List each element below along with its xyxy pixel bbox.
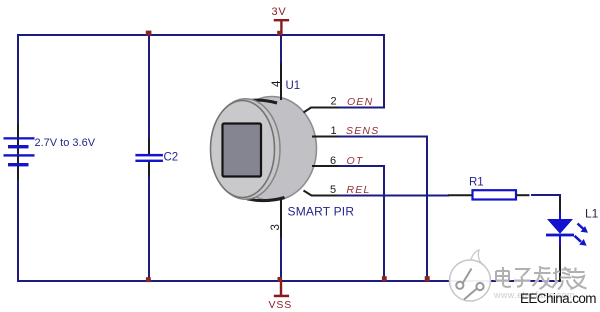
power symbol 3V	[272, 6, 290, 34]
svg-text:L1: L1	[585, 207, 599, 221]
wire: C2 top branch	[148, 35, 150, 139]
svg-text:VSS: VSS	[269, 299, 293, 311]
junction dot: C2 / top rail	[146, 31, 152, 36]
resistor R1	[448, 177, 530, 200]
svg-text:SENS: SENS	[346, 125, 379, 137]
svg-text:EEChina.com: EEChina.com	[520, 291, 596, 306]
U1 pin 6 lead	[312, 165, 339, 167]
svg-text:1: 1	[331, 125, 337, 137]
label SMART PIR	[288, 205, 355, 219]
svg-text:SMART PIR: SMART PIR	[288, 205, 355, 219]
svg-text:2: 2	[331, 96, 337, 108]
wire: SENS net down to VSS rail	[339, 137, 427, 282]
svg-text:REL: REL	[347, 184, 371, 196]
net label OT	[347, 155, 364, 167]
watermark chinese characters	[496, 267, 587, 290]
wire: left rail lower (battery - to bottom rail)	[17, 179, 19, 282]
net label REL	[347, 184, 371, 196]
svg-text:4: 4	[271, 80, 283, 87]
net label OEN	[347, 96, 373, 108]
U1 pin 5 lead	[304, 191, 340, 196]
watermark logo circle	[450, 250, 491, 301]
wire: pin 3 to VSS rail	[280, 236, 282, 281]
pin number 4 (rotated)	[271, 80, 283, 87]
svg-text:OEN: OEN	[347, 96, 373, 108]
U1 pin 1 lead	[312, 136, 339, 138]
LED L1	[546, 207, 599, 247]
power symbol VSS	[269, 281, 293, 311]
junction dot: SENS / bottom rail	[425, 276, 430, 281]
net label SENS	[346, 125, 379, 137]
watermark www.elecfans.com	[493, 290, 575, 300]
capacitor C2	[135, 138, 178, 177]
wire: top power rail from battery to OEN drop	[18, 35, 384, 108]
wire: R1 to LED anode	[531, 195, 560, 198]
junction dot: 3V / top rail	[277, 31, 282, 36]
wire: 3V rail to pin 4	[280, 35, 282, 64]
wire: left rail upper (battery + to top rail)	[17, 34, 19, 125]
junction dot: C2 / bottom rail	[146, 277, 151, 282]
svg-text:6: 6	[330, 155, 336, 167]
LED L1 anode lead	[559, 197, 561, 220]
watermark EEChina.com	[520, 291, 596, 306]
U1 pin 2 lead	[304, 108, 340, 113]
svg-text:R1: R1	[469, 177, 484, 189]
svg-text:3V: 3V	[272, 6, 287, 18]
pin number 6	[330, 155, 336, 167]
wire: LED cathode to VSS rail	[559, 245, 561, 282]
designator U1	[286, 80, 301, 92]
wire: OT net down to VSS rail	[339, 166, 384, 281]
svg-text:5: 5	[330, 184, 336, 196]
pin number 5	[330, 184, 336, 196]
battery BT1 2.7V to 3.6V	[4, 124, 96, 180]
junction dot: OT / bottom rail	[382, 276, 387, 281]
pin number 1	[331, 125, 337, 137]
junction dot: pin3 / bottom rail	[278, 277, 283, 282]
U1 pin 4 (top)	[280, 63, 282, 100]
wire: C2 bottom branch	[148, 176, 150, 281]
svg-text:3: 3	[270, 224, 282, 230]
U1 pin 3 (bottom)	[280, 199, 282, 237]
PIR sensor U1 body	[211, 97, 317, 201]
wire: REL net to R1	[339, 195, 449, 197]
pin number 3 (rotated)	[270, 224, 282, 230]
svg-text:OT: OT	[347, 155, 364, 167]
wire: bottom VSS rail	[18, 280, 560, 282]
pin number 2	[331, 96, 337, 108]
svg-text:2.7V to 3.6V: 2.7V to 3.6V	[35, 137, 96, 149]
svg-text:U1: U1	[286, 80, 301, 92]
svg-text:C2: C2	[164, 152, 179, 164]
